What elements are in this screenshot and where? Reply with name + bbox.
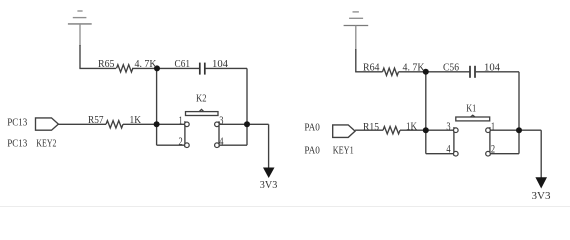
- svg-text:4: 4: [219, 136, 223, 148]
- svg-text:R15: R15: [363, 122, 379, 133]
- svg-text:K2: K2: [196, 94, 207, 105]
- svg-text:PA0: PA0: [304, 122, 320, 133]
- svg-text:1K: 1K: [406, 122, 417, 133]
- svg-text:R64: R64: [363, 63, 380, 74]
- svg-text:3: 3: [219, 115, 223, 127]
- svg-text:C56: C56: [443, 63, 459, 74]
- svg-text:PC13: PC13: [7, 117, 27, 128]
- svg-text:KEY2: KEY2: [36, 138, 56, 149]
- svg-text:2: 2: [491, 144, 495, 156]
- svg-text:R65: R65: [98, 59, 115, 70]
- svg-text:4: 4: [446, 144, 450, 156]
- svg-text:4. 7K: 4. 7K: [135, 59, 157, 70]
- svg-text:4. 7K: 4. 7K: [403, 63, 425, 74]
- svg-text:PA0: PA0: [304, 146, 320, 157]
- svg-text:K1: K1: [466, 103, 476, 114]
- svg-text:C61: C61: [175, 59, 191, 70]
- svg-text:R57: R57: [88, 115, 104, 126]
- svg-text:3V3: 3V3: [532, 191, 551, 202]
- svg-text:3: 3: [446, 121, 450, 133]
- svg-text:1K: 1K: [130, 115, 142, 126]
- svg-text:3V3: 3V3: [260, 180, 278, 191]
- svg-text:PC13: PC13: [7, 138, 27, 149]
- svg-text:1: 1: [179, 115, 183, 127]
- svg-text:2: 2: [179, 136, 183, 148]
- svg-text:KEY1: KEY1: [333, 146, 354, 157]
- svg-text:1: 1: [491, 121, 495, 133]
- svg-text:104: 104: [212, 59, 229, 70]
- svg-text:104: 104: [484, 63, 501, 74]
